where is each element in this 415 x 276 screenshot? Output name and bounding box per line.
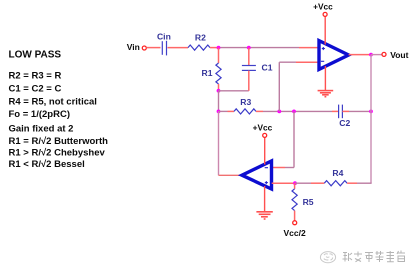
capacitor C1 top lead (248, 48, 250, 66)
node A (217, 46, 221, 50)
watermark logo circle (320, 252, 335, 263)
wire R3 to C2 (263, 110, 332, 112)
svg-text:Vcc/2: Vcc/2 (283, 228, 305, 238)
wire node B to op-amp U1 + input (249, 47, 299, 49)
node I (293, 181, 297, 185)
wire stub at U1 + input (299, 47, 319, 49)
wire node C to C1 bottom (219, 90, 249, 92)
wire R4 right lead (347, 182, 357, 184)
op-amp U2 minus mark (265, 167, 268, 169)
svg-text:R5: R5 (303, 197, 314, 207)
wire node A to node B (219, 47, 249, 49)
svg-text:C1 = C2 = C: C1 = C2 = C (9, 83, 62, 94)
resistor R1 (216, 63, 221, 84)
node H output (369, 53, 373, 57)
power +Vcc U2 stem (264, 138, 266, 165)
ground U1 (318, 91, 334, 97)
terminal Vin (142, 46, 146, 50)
wire R3 left lead (228, 110, 235, 112)
capacitor C1 bottom lead (248, 71, 250, 91)
svg-text:+Vcc: +Vcc (313, 2, 333, 12)
wire U2 + input (272, 182, 295, 184)
wire C2 left lead (332, 110, 338, 112)
watermark text zhangfei shizhan dianzi (343, 251, 406, 263)
node E inverting feed U1 (277, 110, 281, 114)
svg-text:+Vcc: +Vcc (253, 122, 273, 132)
svg-text:C1: C1 (262, 62, 273, 72)
capacitor Cin (162, 41, 166, 56)
node C R1 bottom (217, 89, 221, 93)
wire R4 left lead (311, 182, 324, 184)
svg-text:LOW PASS: LOW PASS (9, 49, 62, 60)
resistor R4 (324, 181, 347, 186)
svg-text:R2 = R3 = R: R2 = R3 = R (9, 70, 62, 81)
wire C2 right lead (342, 110, 349, 112)
wire Vout line down (370, 55, 372, 184)
node B (247, 46, 251, 50)
node F to U2 - input (292, 110, 296, 114)
wire feedback down to U2 output (218, 111, 220, 175)
op-amp U1 minus mark (321, 60, 324, 62)
resistor R2 (188, 45, 210, 50)
svg-text:C2: C2 (339, 118, 350, 128)
terminal +Vcc U1 (323, 12, 327, 16)
resistor R3 (234, 109, 256, 114)
svg-text:Vin: Vin (127, 42, 140, 52)
wire node I to R4 (295, 182, 311, 184)
wire R5 bottom lead (294, 211, 296, 221)
terminal Vout (382, 52, 386, 56)
svg-text:R1 < R/√2 Bessel: R1 < R/√2 Bessel (9, 159, 85, 170)
svg-text:Fo = 1/(2pRC): Fo = 1/(2pRC) (9, 109, 71, 120)
terminal Vcc/2 (293, 221, 297, 225)
node D (217, 110, 221, 114)
wire R3 right lead (256, 110, 263, 112)
svg-text:Cin: Cin (157, 31, 171, 41)
node G on Vout line (369, 110, 373, 114)
wire Vin to Cin (146, 47, 160, 49)
wire Cin to R2 (168, 47, 189, 49)
op-amp U1 (319, 41, 349, 70)
svg-text:R1 = R/√2 Butterworth: R1 = R/√2 Butterworth (9, 136, 109, 147)
power +Vcc U1 stem (324, 17, 326, 45)
wire node H to Vout terminal (371, 54, 382, 56)
op-amp U2 plus mark (265, 181, 268, 184)
wire to U1 - input (279, 61, 296, 63)
ground U2 stem (264, 186, 266, 212)
wire node C down to node D (218, 91, 220, 112)
svg-text:Vout: Vout (390, 50, 408, 60)
terminal +Vcc U2 (263, 133, 267, 137)
ground U2 (256, 212, 272, 219)
wire R1 bottom lead (218, 84, 220, 91)
wire to U2 - input (285, 167, 294, 169)
wire R5 top lead (294, 183, 296, 189)
svg-text:R3: R3 (240, 97, 251, 107)
svg-text:R1: R1 (202, 68, 213, 78)
wire to U2 output vertex (219, 174, 243, 176)
wire C2 to Vout line (349, 110, 371, 112)
wire node A to resistor R1 (218, 48, 220, 63)
wire node E up (278, 62, 280, 111)
wire R2 to node A (210, 47, 219, 49)
op-amp U2 (242, 161, 272, 189)
svg-text:R2: R2 (195, 33, 206, 43)
svg-text:R4: R4 (332, 168, 343, 178)
wire stub at U2 - input (272, 167, 285, 169)
ground U1 stem (324, 66, 326, 91)
svg-text:R1 > R/√2 Chebyshev: R1 > R/√2 Chebyshev (9, 148, 106, 159)
wire stub at U1 - input (296, 61, 319, 63)
resistor R5 (292, 189, 297, 211)
wire U1 output (349, 54, 371, 56)
wire node F down (293, 111, 295, 167)
svg-text:R4 = R5, not critical: R4 = R5, not critical (9, 96, 97, 107)
op-amp U1 plus mark (322, 47, 325, 50)
wire R4 to Vout line (357, 182, 372, 184)
svg-text:Gain fixed at 2: Gain fixed at 2 (9, 123, 74, 134)
wire node D to R3 (219, 110, 228, 112)
capacitor C1 (242, 66, 256, 71)
capacitor C2 (339, 105, 343, 119)
